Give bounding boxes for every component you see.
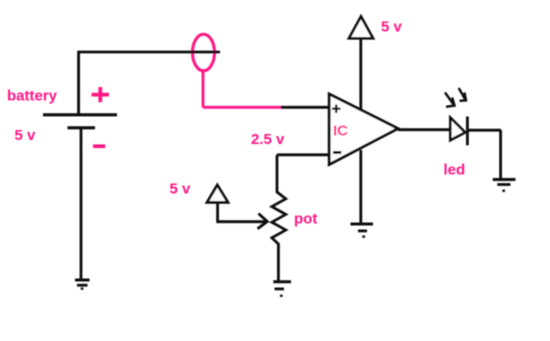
op-amp minus input symbol [333,151,341,154]
wire: inverting input horizontal [277,153,329,156]
node: probe ellipse (pink) [193,34,215,71]
LED D1 triangle [450,118,465,141]
battery minus sign (pink) [93,144,105,148]
wire: op-amp V+ supply vertical [359,38,362,109]
wire: op-amp output to LED [398,128,451,131]
arrowhead: pot wiper [258,214,268,229]
ground: LED [493,180,516,191]
svg-text:IC: IC [333,123,348,140]
svg-text:led: led [444,162,466,179]
ground: pot [273,282,291,296]
wire: pot wiper vertical [216,202,219,221]
svg-text:pot: pot [294,211,317,228]
op-amp plus input symbol [332,105,340,114]
battery plus sign (pink) [92,87,110,102]
power symbol: 5v triangle near pot [207,185,228,202]
battery positive plate [43,113,117,116]
wire: battery positive vertical [77,51,80,114]
LED arrows [445,88,466,107]
wire: op-amp V- vertical to ground [359,150,362,224]
wire: pot wiper arrow horizontal [216,220,266,223]
wire: LED to right [468,129,501,132]
svg-text:2.5 v: 2.5 v [251,131,285,148]
ground: op-amp [351,224,374,237]
wire: down to LED ground [499,130,502,179]
svg-text:battery: battery [7,88,58,105]
wire: pink horizontal to op-amp input [203,106,282,109]
op-amp U1 triangle [329,94,398,165]
wire: black segment into non-inverting input [281,106,329,109]
ground: battery [75,280,90,289]
wire: vertical down to pot [276,155,279,193]
potentiometer R1 zigzag [272,192,286,244]
svg-text:5 v: 5 v [381,19,403,36]
wire: pot lower vertical [277,243,280,281]
wire: battery negative vertical [80,129,83,280]
battery negative plate [68,126,96,129]
svg-text:5 v: 5 v [15,127,37,144]
wire: top horizontal from battery to probe node [78,51,221,54]
power symbol: 5v triangle above op-amp [349,17,373,39]
LED cathode bar [466,117,469,146]
svg-text:5 v: 5 v [170,180,192,197]
wire: pink vertical from probe [202,71,205,108]
